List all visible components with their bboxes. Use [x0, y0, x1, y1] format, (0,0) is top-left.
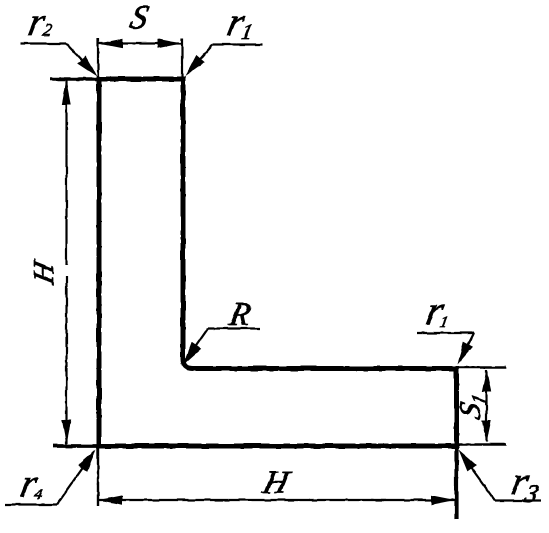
arrow r3	[459, 450, 477, 472]
arrow r2	[77, 56, 97, 77]
extension line S left	[97, 38, 99, 77]
arrow r1 top	[186, 55, 205, 76]
extension line S1 top	[458, 366, 506, 369]
dimension line S1	[485, 370, 487, 442]
dimension line S	[98, 42, 182, 44]
extension line top-left (H top)	[50, 77, 98, 81]
angle profile outline	[99, 79, 457, 446]
arrow S1 down	[482, 421, 491, 443]
leader r1 right (top-right corner of flange)	[417, 333, 474, 361]
arrow H-bottom right	[431, 495, 455, 505]
arrow R	[184, 342, 202, 364]
label S1 (rotated)	[453, 389, 491, 422]
leader r3 (bottom-right corner)	[462, 455, 541, 501]
extension line S1 bottom	[458, 443, 506, 446]
extension line bottom-left (H bottom)	[53, 444, 98, 448]
dimension line H bottom	[98, 499, 456, 501]
leader r4 (bottom-left corner)	[5, 455, 92, 505]
arrow S1 up	[482, 370, 491, 392]
extension line below bottom-right corner	[454, 446, 458, 519]
leader r2 (top-left corner)	[20, 44, 94, 74]
arrow H-left up	[62, 80, 71, 105]
arrow H-bottom left	[99, 495, 123, 505]
arrow S right	[158, 39, 182, 48]
arrow r4	[78, 450, 96, 472]
extension line S right	[181, 38, 183, 77]
leader r1 top (inner top corner)	[188, 45, 262, 74]
leader R (inner fillet)	[186, 329, 260, 361]
arrow r1 right	[458, 342, 474, 365]
arrow H-left down	[62, 420, 71, 445]
extension line below bottom-left corner	[97, 446, 99, 506]
dimension line H left	[65, 80, 67, 265]
arrow S left	[99, 39, 123, 48]
